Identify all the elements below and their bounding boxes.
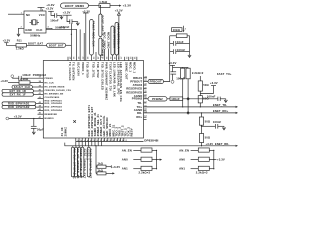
svg-text:ENET_RD+: ENET_RD+ bbox=[213, 109, 229, 113]
svg-text:RX_CLK: RX_CLK bbox=[45, 82, 55, 84]
svg-text:TD-: TD- bbox=[137, 101, 142, 105]
wire join arrow bbox=[157, 159, 160, 161]
wire R12 to +3.3V bbox=[106, 166, 111, 168]
svg-text:100nF PORB/G2: 100nF PORB/G2 bbox=[22, 73, 46, 77]
svg-text:37: 37 bbox=[83, 140, 85, 142]
vertical net label oval LED_SPEED bbox=[111, 26, 114, 55]
capacitor 100nF right network bbox=[172, 67, 174, 71]
svg-text:LED_SPEED/A: LED_SPEED/A bbox=[113, 27, 117, 48]
vertical net label oval LED_ACT bbox=[115, 23, 118, 56]
svg-text:100nF: 100nF bbox=[213, 120, 222, 124]
svg-text:LED_ACT/COL/AN_EN_CFG: LED_ACT/COL/AN_EN_CFG bbox=[119, 62, 123, 102]
wire +3.3V column C to chip bbox=[118, 15, 120, 60]
+3.3V rail above U2 bbox=[38, 6, 45, 8]
wire R8 to TD- line bbox=[199, 103, 201, 107]
svg-text:2.2kΩ×3: 2.2kΩ×3 bbox=[139, 171, 151, 175]
svg-text:+3.3V: +3.3V bbox=[168, 61, 176, 65]
ground RD termination bbox=[222, 126, 225, 130]
svg-text:20: 20 bbox=[129, 57, 131, 59]
svg-text:GND: GND bbox=[25, 28, 32, 32]
svg-text:2: 2 bbox=[185, 28, 187, 30]
svg-text:PFBIN2: PFBIN2 bbox=[132, 97, 143, 101]
svg-text:AN1: AN1 bbox=[122, 167, 128, 171]
svg-text:1kΩ: 1kΩ bbox=[98, 168, 104, 172]
svg-text:VCC: VCC bbox=[39, 13, 45, 17]
capacitor 100nF chain 1 bbox=[54, 13, 56, 18]
wire join vertical bbox=[213, 150, 215, 168]
svg-text:30pF: 30pF bbox=[37, 127, 44, 131]
svg-text:42: 42 bbox=[99, 140, 102, 142]
svg-text:+3.3V ENET_RD-: +3.3V ENET_RD- bbox=[206, 142, 230, 146]
svg-text:ATGD2: ATGD2 bbox=[133, 83, 143, 87]
svg-text:40: 40 bbox=[39, 89, 41, 92]
resistor 2.2k on AN1 bbox=[198, 166, 209, 170]
crystal symbol inside U2 bbox=[30, 20, 40, 25]
svg-text:TXD_2/TX2: TXD_2/TX2 bbox=[96, 62, 100, 78]
svg-text:17: 17 bbox=[39, 77, 41, 79]
svg-text:MDIO_2/MD: MDIO_2/MD bbox=[107, 32, 111, 49]
wire resistor AN1 to join bbox=[152, 168, 157, 170]
svg-text:28: 28 bbox=[96, 57, 98, 59]
svg-text:RXD_1/PHYAD2: RXD_1/PHYAD2 bbox=[45, 102, 63, 105]
svg-text:PWR_DOWN/INT_N/25MHZ: PWR_DOWN/INT_N/25MHZ bbox=[104, 62, 108, 100]
svg-text:45: 45 bbox=[108, 140, 111, 142]
svg-text:+3.3V: +3.3V bbox=[46, 7, 54, 11]
svg-text:50Ω: 50Ω bbox=[205, 119, 211, 123]
svg-text:TX_EN/TXEN: TX_EN/TXEN bbox=[71, 62, 75, 80]
wire R5 down to TD- line bbox=[182, 79, 184, 107]
svg-text:MDC_2/MDC: MDC_2/MDC bbox=[103, 32, 107, 50]
net label oval RXD_1/PHYAD2 bbox=[2, 105, 36, 108]
wire top stub bbox=[95, 52, 97, 61]
svg-text:47: 47 bbox=[115, 140, 118, 142]
pin 2 wire of U2 bbox=[19, 28, 25, 32]
svg-text:26: 26 bbox=[105, 57, 107, 59]
wire RXD_0 to chip bbox=[36, 103, 44, 105]
svg-text:+3.3V: +3.3V bbox=[14, 115, 22, 119]
svg-text:PFBOUT: PFBOUT bbox=[130, 79, 142, 83]
wire AN0 to resistor bbox=[133, 159, 141, 161]
wire R3 to +3.3V bbox=[110, 5, 119, 7]
svg-text:42: 42 bbox=[39, 96, 41, 99]
wire BOOT_BAT oval to chip column bbox=[66, 44, 72, 46]
wire PFBIN2 row to cap and ground bbox=[167, 98, 170, 100]
no-connect X mark inside U1 bbox=[73, 120, 76, 123]
svg-text:46: 46 bbox=[112, 140, 115, 142]
svg-text:AN0: AN0 bbox=[179, 158, 185, 162]
svg-text:45: 45 bbox=[39, 108, 41, 111]
vertical net label oval BOOT_BAT bbox=[99, 14, 102, 37]
wire R10 to ENET_RD- bus bbox=[201, 143, 203, 146]
svg-text:20: 20 bbox=[144, 91, 146, 93]
svg-text:40: 40 bbox=[92, 140, 95, 142]
wire AN_EN to resistor bbox=[191, 149, 199, 151]
resistor 2.2k on MDC row bbox=[19, 81, 30, 84]
svg-text:10nF: 10nF bbox=[177, 40, 184, 44]
wire FAULT_CLK to chip bbox=[33, 86, 44, 88]
svg-text:RXD_2/PHYAD3: RXD_2/PHYAD3 bbox=[45, 106, 63, 109]
svg-text:100nF: 100nF bbox=[171, 97, 180, 101]
svg-text:TXD_0/TX0: TXD_0/TX0 bbox=[86, 62, 90, 78]
svg-text:MDC_1: MDC_1 bbox=[129, 62, 133, 72]
svg-text:RXD_3/PHYAD4: RXD_3/PHYAD4 bbox=[45, 109, 63, 112]
ground chain 1 bbox=[60, 15, 63, 19]
capacitor 100nF chain 2 bbox=[69, 19, 71, 24]
svg-text:AN1: AN1 bbox=[179, 167, 185, 171]
wire oval to chip pin bbox=[90, 55, 92, 61]
wire BOOT net drop with junction bbox=[99, 6, 101, 14]
ground at U2 pin2 bbox=[17, 33, 20, 37]
svg-text:35: 35 bbox=[76, 140, 78, 142]
wire join vertical bbox=[156, 150, 158, 168]
wire AN_EN to resistor bbox=[133, 149, 141, 151]
wire top pin column x84 bbox=[83, 33, 85, 61]
resistor 2.2k on AN0 bbox=[198, 157, 209, 161]
capacitor 100nF lower bbox=[170, 51, 174, 53]
svg-text:X1/CLKIN: X1/CLKIN bbox=[76, 62, 80, 76]
wire bottom pin stubs bbox=[75, 138, 77, 146]
svg-text:22: 22 bbox=[144, 84, 146, 86]
svg-text:RD+: RD+ bbox=[136, 115, 142, 119]
net label oval BOOT_MEM0 bbox=[61, 3, 89, 8]
svg-text:1kΩ: 1kΩ bbox=[98, 162, 104, 166]
pin 1 wire of U2 bbox=[8, 13, 24, 15]
wire EXT_RX_1F to chip bbox=[34, 94, 44, 96]
svg-text:EXT_RX_1R: EXT_RX_1R bbox=[9, 89, 25, 93]
resistor R11 1.5k bbox=[16, 44, 27, 47]
svg-text:RD-: RD- bbox=[137, 111, 142, 115]
resistor 2.2k on AN1 bbox=[141, 166, 152, 170]
svg-text:BOOT_BAT: BOOT_BAT bbox=[28, 41, 43, 45]
wire RXD_1 to chip bbox=[36, 106, 44, 108]
svg-text:100nF: 100nF bbox=[207, 95, 216, 99]
wire ENET_TD- line bbox=[144, 106, 236, 108]
svg-text:50Ω: 50Ω bbox=[205, 136, 211, 140]
svg-text:50MHz: 50MHz bbox=[30, 33, 40, 37]
svg-text:FAULT_MDC_CLK: FAULT_MDC_CLK bbox=[92, 21, 96, 47]
vertical net label oval RXD1_2/PHYAD_EXT bbox=[81, 147, 84, 177]
svg-text:+3.3V: +3.3V bbox=[210, 81, 218, 85]
wire top pin with junction bbox=[70, 24, 72, 61]
svg-text:FAST TX+: FAST TX+ bbox=[217, 72, 232, 76]
wire resistor AN0 to join bbox=[152, 159, 157, 161]
svg-text:EXT_RX_1F: EXT_RX_1F bbox=[10, 93, 26, 97]
svg-text:25MHZ_OUT: 25MHZ_OUT bbox=[125, 62, 129, 80]
net label oval PFBIN2 bbox=[148, 97, 167, 101]
svg-text:31: 31 bbox=[81, 57, 83, 59]
ground chain 2 bbox=[76, 22, 79, 26]
svg-text:44: 44 bbox=[105, 140, 108, 142]
svg-text:+3.3V: +3.3V bbox=[3, 39, 11, 43]
resistor 2.2k on AN_EN bbox=[198, 148, 209, 152]
net label oval BOOT_BAT left bbox=[47, 43, 66, 47]
svg-text:50: 50 bbox=[124, 140, 126, 142]
component box 10k label bbox=[172, 28, 182, 32]
wire top stub with net name MDIO_2 bbox=[108, 49, 110, 61]
svg-text:17: 17 bbox=[144, 101, 146, 103]
svg-text:TXD_1/TX1: TXD_1/TX1 bbox=[91, 62, 95, 78]
svg-text:16: 16 bbox=[144, 105, 146, 107]
capacitor on PFBIN2 row bbox=[217, 97, 219, 101]
wire R13 to arrow bbox=[106, 172, 113, 174]
IC U1 DP83848I body bbox=[43, 61, 143, 139]
svg-text:RXD_1/PHYAD2: RXD_1/PHYAD2 bbox=[8, 105, 30, 109]
pin 3 CLK wire of U2, net 50MHz bbox=[46, 28, 77, 60]
svg-text:29: 29 bbox=[92, 57, 94, 59]
+3.3V chain 2 bar bbox=[62, 14, 71, 16]
svg-text:24: 24 bbox=[113, 57, 116, 59]
svg-text:41: 41 bbox=[96, 140, 99, 142]
svg-text:100nF: 100nF bbox=[177, 48, 186, 52]
svg-text:46: 46 bbox=[39, 112, 41, 115]
svg-text:13: 13 bbox=[144, 116, 146, 118]
svg-text:RX_DV/MII_MODE: RX_DV/MII_MODE bbox=[45, 86, 65, 88]
wire top pin column x80 bbox=[79, 29, 81, 60]
wire resistor AN_EN to join bbox=[152, 149, 157, 151]
svg-text:1.5kΩ: 1.5kΩ bbox=[99, 0, 108, 4]
svg-text:33: 33 bbox=[72, 57, 74, 59]
svg-text:NC: NC bbox=[26, 13, 30, 17]
svg-text:21: 21 bbox=[125, 57, 127, 59]
svg-text:BOOT_MEM0: BOOT_MEM0 bbox=[65, 4, 85, 8]
resistor R9 50 ohm bbox=[199, 117, 203, 125]
capacitor 30pF bbox=[31, 125, 37, 127]
svg-text:ENET_TD-: ENET_TD- bbox=[213, 103, 227, 107]
svg-text:FAULT_CLK: FAULT_CLK bbox=[14, 85, 31, 89]
svg-text:38: 38 bbox=[86, 140, 88, 142]
svg-text:+3.3V: +3.3V bbox=[115, 8, 123, 12]
svg-text:24: 24 bbox=[144, 75, 147, 78]
svg-text:TXD_3/TX3_D3/LED: TXD_3/TX3_D3/LED bbox=[100, 62, 104, 90]
svg-text:CRS/CRS_DV/LED_CFG: CRS/CRS_DV/LED_CFG bbox=[45, 90, 72, 92]
svg-text:RESERVED: RESERVED bbox=[126, 87, 142, 91]
svg-text:AN_EN: AN_EN bbox=[179, 148, 189, 152]
wire resistor AN_EN to join bbox=[209, 149, 214, 151]
resistor R13 1k bbox=[97, 172, 106, 175]
resistor R7 50 ohm upper bbox=[199, 76, 201, 81]
svg-text:41: 41 bbox=[39, 92, 41, 95]
ground on PFBIN2 row bbox=[224, 99, 227, 103]
wire AN1 to resistor bbox=[191, 168, 199, 170]
svg-text:RBIAS: RBIAS bbox=[133, 76, 142, 80]
wire BOOT_MEM0 to R3 bbox=[89, 5, 100, 7]
wire top stub with net name MDC_2 bbox=[103, 49, 105, 61]
wire EXT_RX_1R to chip bbox=[34, 90, 44, 92]
svg-text:+3.3V: +3.3V bbox=[0, 79, 8, 83]
vertical net label oval BOOT_MEM1 bbox=[99, 38, 102, 55]
junction diamond on PFBIN2 row bbox=[187, 98, 190, 101]
svg-text:PFBIN1: PFBIN1 bbox=[45, 78, 54, 80]
svg-text:+3.3V: +3.3V bbox=[217, 158, 225, 162]
svg-text:2: 2 bbox=[21, 27, 22, 29]
wire PFBOUT oval to filter bbox=[164, 36, 170, 82]
wire PFBOUT to oval bbox=[144, 81, 149, 83]
resistor R6 2.2k bbox=[186, 68, 190, 79]
vertical net label oval RX_DV_2/PHYAD_EX bbox=[75, 147, 78, 177]
svg-text:36: 36 bbox=[80, 140, 82, 142]
analog ground circle bbox=[171, 80, 174, 83]
capacitor 10nF bbox=[170, 42, 174, 44]
svg-text:25: 25 bbox=[109, 57, 111, 59]
svg-text:BGNDIO: BGNDIO bbox=[45, 118, 54, 120]
svg-text:RESV: RESV bbox=[130, 128, 134, 136]
component box 100nF on PFBIN2 row bbox=[170, 97, 183, 101]
vertical net label oval FAULT_MDC bbox=[90, 20, 94, 56]
svg-text:DP83848I: DP83848I bbox=[144, 138, 158, 142]
svg-text:15: 15 bbox=[144, 109, 146, 111]
svg-text:2.2kΩ: 2.2kΩ bbox=[20, 77, 29, 81]
wire left stub row bbox=[38, 98, 44, 100]
svg-text:LED_LINK/AN0_EN_LNK: LED_LINK/AN0_EN_LNK bbox=[112, 62, 116, 97]
svg-text:+3.3V: +3.3V bbox=[63, 10, 71, 14]
wire chain1 to cap bbox=[51, 11, 55, 15]
wire ENET_RD- long bus bbox=[65, 143, 236, 146]
svg-text:23: 23 bbox=[117, 57, 119, 59]
svg-text:BOOT_BAT: BOOT_BAT bbox=[49, 45, 64, 48]
svg-text:10kΩ: 10kΩ bbox=[173, 28, 181, 32]
oscillator U2 50MHz bbox=[24, 11, 46, 33]
wire drops to bottom net labels bbox=[72, 146, 74, 147]
svg-text:RESERVED: RESERVED bbox=[45, 114, 58, 116]
svg-text:PFBOUT: PFBOUT bbox=[150, 80, 162, 84]
svg-text:RXD2_2: RXD2_2 bbox=[85, 149, 89, 161]
resistor 2.2k on AN_EN bbox=[141, 148, 152, 152]
svg-text:PFBIN2: PFBIN2 bbox=[152, 97, 163, 101]
capacitor 100nF RD termination bbox=[214, 124, 216, 129]
svg-text:39: 39 bbox=[39, 86, 41, 88]
wire top column B to chip bbox=[85, 13, 87, 61]
svg-text:34: 34 bbox=[68, 57, 71, 59]
svg-text:RX_ER/MDIX_EN: RX_ER/MDIX_EN bbox=[45, 94, 64, 96]
wire resistor AN0 to join bbox=[209, 159, 214, 161]
net label oval RXD_0/PHYAD1 bbox=[2, 102, 36, 105]
junction diamond on RD+ row bbox=[187, 112, 190, 115]
wire RBIAS stub bbox=[144, 77, 148, 79]
svg-text:RXD_0/PHYAD1: RXD_0/PHYAD1 bbox=[8, 102, 30, 106]
svg-text:21: 21 bbox=[144, 87, 146, 89]
vertical net label oval RX_CLK_2/PHYAD_EX bbox=[71, 147, 74, 177]
svg-text:TX_CLK/CLK: TX_CLK/CLK bbox=[68, 62, 72, 81]
power flag RESERVED row bbox=[6, 117, 9, 120]
svg-text:38: 38 bbox=[39, 81, 41, 83]
svg-text:43: 43 bbox=[39, 101, 41, 104]
wire PFBIN2 row to oval bbox=[144, 98, 149, 100]
svg-text:+3.3V: +3.3V bbox=[46, 3, 54, 7]
net label oval FAULT_CLK bbox=[12, 85, 33, 89]
svg-text:27: 27 bbox=[101, 57, 103, 59]
svg-text:RESERVED: RESERVED bbox=[126, 90, 142, 94]
svg-text:19: 19 bbox=[133, 57, 135, 59]
svg-text:32: 32 bbox=[77, 57, 79, 59]
wire branch to C 30pF bbox=[33, 119, 35, 127]
svg-text:22: 22 bbox=[119, 57, 121, 59]
net label oval PFBOUT bbox=[148, 79, 164, 83]
resistor R4 bbox=[176, 34, 187, 38]
svg-text:100nF: 100nF bbox=[50, 19, 59, 23]
resistor R10 50 ohm bbox=[199, 134, 203, 143]
wire node between R9 R10 bbox=[201, 125, 203, 133]
wire +3.3V node bbox=[173, 66, 189, 68]
svg-text:R11: R11 bbox=[17, 39, 22, 43]
svg-text:VDDIO_1: VDDIO_1 bbox=[81, 62, 85, 75]
wire RESERVED row +3.3V bbox=[9, 118, 44, 120]
wire join to +3.3V bbox=[214, 159, 217, 161]
wire right stubs bbox=[144, 84, 147, 86]
wire AN0 to resistor bbox=[191, 159, 199, 161]
wire AN1 to resistor bbox=[133, 168, 141, 170]
svg-text:MDIO_1: MDIO_1 bbox=[133, 62, 137, 73]
wire PFBIN1 row bbox=[12, 77, 18, 79]
resistor R5 2.2k bbox=[181, 68, 185, 79]
svg-text:100nF: 100nF bbox=[61, 25, 70, 29]
wire R6 down to RD+ line bbox=[187, 79, 189, 113]
svg-text:2.2kΩ×2: 2.2kΩ×2 bbox=[192, 71, 204, 75]
wire +3.3V tap to node bbox=[200, 86, 213, 94]
svg-text:43: 43 bbox=[102, 140, 105, 142]
resistor R3 1.5k bbox=[99, 4, 110, 8]
vertical net label oval RXD0_2/PHYAD_EXT bbox=[78, 147, 81, 177]
resistor R8 50 ohm lower bbox=[199, 91, 201, 96]
power flag at PFBIN1 row bbox=[11, 75, 14, 78]
ground under 30pF bbox=[33, 128, 35, 130]
wire chain2 to cap bbox=[67, 15, 70, 21]
svg-text:48: 48 bbox=[118, 140, 121, 142]
svg-text:COL/PHYAD0: COL/PHYAD0 bbox=[45, 96, 60, 99]
wire +3.3V to R11 bbox=[6, 43, 16, 46]
wire to pull resistors bottom bbox=[95, 146, 97, 174]
wire R4 to ground rail bbox=[170, 35, 177, 37]
svg-text:+3.3V: +3.3V bbox=[123, 3, 132, 7]
capacitor 100nF PFBIN1 bbox=[18, 76, 20, 81]
svg-text:50Ω: 50Ω bbox=[203, 83, 209, 87]
wire oval to chip bbox=[99, 55, 101, 60]
svg-text:4: 4 bbox=[42, 9, 43, 12]
wire RD termination drop bbox=[201, 113, 203, 117]
resistor 2.2k on AN0 bbox=[141, 157, 152, 161]
wire resistor AN1 to join bbox=[209, 168, 214, 170]
ground at filter bbox=[188, 54, 191, 58]
svg-text:X1_CK: X1_CK bbox=[60, 127, 64, 136]
net label oval EXT_RX_1F bbox=[2, 93, 34, 96]
svg-text:2.2kΩ×3: 2.2kΩ×3 bbox=[196, 171, 208, 175]
wire ENET_RD+ line bbox=[144, 112, 236, 114]
svg-text:19: 19 bbox=[144, 95, 146, 97]
wire MDC row bbox=[8, 82, 19, 84]
wire top stubs bbox=[67, 57, 69, 61]
svg-text:AN_EN: AN_EN bbox=[122, 148, 132, 152]
wire left stubs bbox=[38, 109, 44, 111]
svg-text:39: 39 bbox=[89, 140, 91, 142]
svg-text:TCK/TCLK/TDO_TDI: TCK/TCLK/TDO_TDI bbox=[108, 62, 112, 91]
resistor R12 1k bbox=[97, 165, 106, 168]
svg-text:18: 18 bbox=[144, 97, 146, 99]
svg-text:1.5kΩ: 1.5kΩ bbox=[16, 47, 25, 51]
svg-text:23: 23 bbox=[144, 80, 146, 82]
svg-text:+3.3V: +3.3V bbox=[112, 165, 120, 169]
svg-text:1: 1 bbox=[21, 13, 22, 15]
svg-text:AN0: AN0 bbox=[122, 158, 128, 162]
svg-text:30: 30 bbox=[86, 57, 88, 59]
wire R11 to BOOT_BAT oval bbox=[27, 44, 47, 46]
vertical net label oval RXD3_2/PHYAD_EXT bbox=[87, 147, 90, 177]
wire short bus under U1 bbox=[76, 140, 144, 142]
svg-text:CLK: CLK bbox=[36, 28, 43, 32]
net label oval EXT_RX_1R bbox=[2, 89, 34, 92]
pin 4 wire of U2 to +3.3V bbox=[40, 7, 42, 11]
+3.3V chain 1 bar bbox=[48, 10, 54, 12]
